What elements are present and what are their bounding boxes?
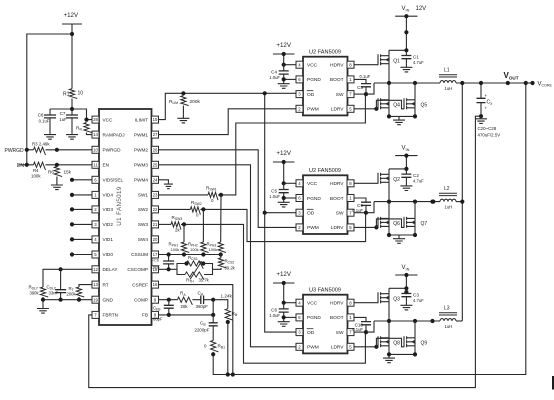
junction gate node Q8 — [374, 345, 378, 349]
capacitor CDLY — [60, 269, 62, 289]
wire GND row — [43, 300, 92, 305]
svg-text:BOOT: BOOT — [330, 315, 344, 321]
pin 1 BOOT U3 FAN5009 — [347, 314, 354, 321]
pin 6 PGND U3 FAN5009 — [296, 314, 303, 321]
junction VCC node C6 — [282, 301, 286, 305]
svg-text:360pF: 360pF — [196, 304, 209, 309]
capacitor C2 — [405, 169, 407, 174]
wire Q5 drain — [414, 83, 416, 100]
svg-text:HDRV: HDRV — [330, 181, 344, 187]
svg-text:Q7: Q7 — [421, 221, 428, 227]
junction Q7 drain rail — [413, 200, 417, 204]
junction Q9 source — [413, 352, 417, 356]
svg-text:68pF: 68pF — [153, 317, 163, 322]
junction +12V C5 — [282, 160, 286, 164]
svg-text:OD: OD — [307, 330, 315, 336]
wire PWM4 stub — [159, 180, 169, 183]
wire Q9 drain — [414, 321, 416, 338]
wire CSCOMP row — [159, 268, 178, 270]
svg-text:VID5/SEL: VID5/SEL — [103, 178, 124, 183]
svg-text:PWM3: PWM3 — [134, 163, 148, 168]
svg-text:20: 20 — [153, 237, 158, 242]
junction CFB bottom — [167, 313, 171, 317]
junction PGND C4 — [282, 77, 286, 81]
junction VCC pin / RR — [84, 118, 88, 122]
wire RR to RAMPADJ pin — [87, 133, 93, 135]
svg-text:12: 12 — [93, 267, 98, 272]
wire L2 to tie — [456, 201, 462, 203]
svg-text:100k: 100k — [209, 247, 218, 252]
wire RDLY bottom — [42, 297, 44, 300]
wire Q4 source — [388, 108, 390, 117]
junction VOUT corner — [524, 81, 528, 85]
svg-text:39.2k: 39.2k — [225, 266, 236, 271]
wire L3 to tie — [456, 320, 462, 322]
op-amp U2 FAN5009 driver box — [303, 57, 348, 116]
svg-text:15: 15 — [153, 117, 158, 122]
svg-text:C5: C5 — [271, 188, 277, 193]
wire RTH branch — [177, 269, 185, 274]
node VID2 — [70, 222, 74, 226]
capacitor C3 — [405, 288, 407, 293]
svg-text:VID3: VID3 — [103, 207, 114, 212]
svg-text:24: 24 — [153, 177, 158, 182]
svg-text:CSSUM: CSSUM — [131, 252, 148, 257]
svg-text:SW: SW — [336, 330, 344, 336]
wire RCS1 branch down — [203, 264, 212, 270]
transistor Q4 — [378, 98, 389, 109]
pin 5 LDRV U2 FAN5009 — [347, 105, 354, 112]
wire source link Q4 Q5 — [389, 115, 415, 117]
svg-text:+12V: +12V — [64, 12, 79, 19]
junction CDLY gnd — [59, 298, 63, 302]
wire VIN bar Q3 — [395, 274, 417, 276]
svg-text:VID4: VID4 — [103, 193, 114, 198]
junction RLIM — [181, 91, 185, 95]
pin 13 RT — [92, 281, 99, 288]
node VID4 — [70, 193, 74, 197]
junction SW node Q2 — [364, 211, 368, 215]
svg-text:16: 16 — [153, 282, 158, 287]
junction CFB top — [167, 298, 171, 302]
pin 8 FB — [152, 311, 159, 318]
svg-text:+12V: +12V — [276, 42, 291, 49]
junction OD bus top — [263, 91, 267, 95]
svg-text:10: 10 — [78, 91, 84, 97]
capacitor Cx output bank — [480, 83, 482, 98]
svg-text:U2 FAN5009: U2 FAN5009 — [309, 50, 341, 56]
op-amp U1 FAN5019 controller box — [99, 109, 152, 325]
wire RPH2 bottom — [202, 253, 204, 255]
wire +12V bar C6 — [273, 282, 295, 284]
wire DELAY row — [43, 269, 92, 287]
svg-text:100k: 100k — [171, 247, 180, 252]
junction RCS1 left — [184, 261, 188, 265]
junction gate node Q6 — [374, 225, 378, 229]
junction EN pull-up — [25, 163, 29, 167]
svg-text:VCC: VCC — [103, 117, 114, 122]
wire PGND C4 — [284, 78, 296, 80]
svg-text:PWRGD: PWRGD — [5, 148, 25, 154]
svg-text:L2: L2 — [444, 186, 450, 192]
wire FB row — [159, 314, 214, 316]
wire Q2 source — [388, 182, 390, 201]
wire RA to CA — [192, 299, 200, 301]
wire VCC C5 — [284, 182, 296, 184]
svg-text:1uH: 1uH — [445, 324, 453, 329]
svg-text:LDRV: LDRV — [331, 225, 345, 231]
svg-text:12V: 12V — [416, 6, 427, 12]
op-amp U2 FAN5009 driver box — [303, 175, 348, 234]
junction RB1 bottom — [211, 352, 215, 356]
svg-text:Q8: Q8 — [393, 341, 400, 347]
junction Cx ground — [479, 114, 483, 118]
resistor RT — [76, 287, 84, 297]
junction RPH1 tap — [182, 222, 186, 226]
thermistor arrow — [190, 262, 202, 280]
svg-text:CSREF: CSREF — [132, 282, 148, 287]
svg-text:0.1uF: 0.1uF — [360, 74, 371, 79]
junction below drain Q3 — [404, 290, 408, 294]
svg-text:PGND: PGND — [307, 77, 321, 83]
wire comp node down to FB — [212, 300, 214, 315]
wire VCC C6 — [284, 302, 296, 304]
wire LDRV to gates Q8 Q9 — [354, 346, 378, 348]
svg-text:2200pF: 2200pF — [195, 328, 210, 333]
wire HDRV to Q2 gate — [354, 182, 378, 184]
wire COMP row — [159, 299, 178, 301]
wire VIN bar Q2 — [395, 155, 417, 157]
wire RLIM to ground — [182, 106, 184, 115]
svg-text:ILIMIT: ILIMIT — [135, 117, 148, 122]
wire SW rail Q3 — [374, 320, 440, 322]
wire Q7 drain — [414, 202, 416, 219]
junction SW node Q1 — [364, 92, 368, 96]
junction tie top — [460, 81, 464, 85]
svg-text:FB: FB — [142, 313, 148, 318]
junction rail tie Q2 — [430, 200, 434, 204]
pin 24 PWM4 — [152, 176, 159, 183]
svg-text:C3: C3 — [413, 292, 419, 297]
junction VOUT sense — [506, 81, 510, 85]
wire Q6 drain — [388, 202, 390, 219]
svg-text:U2 FAN5009: U2 FAN5009 — [309, 168, 341, 174]
junction FB node — [211, 313, 215, 317]
svg-text:10nF: 10nF — [151, 264, 161, 269]
svg-text:1uH: 1uH — [445, 204, 453, 209]
wire EN row — [19, 164, 34, 166]
wire source link Q6 Q7 — [389, 234, 415, 236]
wire Q1 source — [388, 64, 390, 83]
svg-text:Q6: Q6 — [393, 221, 400, 227]
wire CSREF to output sense — [159, 285, 233, 375]
svg-text:+12V: +12V — [276, 271, 291, 278]
pin 19 GND — [92, 296, 99, 303]
junction left of L2 — [431, 200, 435, 204]
capacitor C6 — [283, 303, 285, 309]
junction Q7 source — [413, 233, 417, 237]
pin 11 EN — [92, 161, 99, 168]
svg-text:200k: 200k — [67, 292, 77, 297]
junction VIN bar Q3 — [404, 273, 408, 277]
wire SW1 row — [159, 194, 209, 196]
svg-text:4.7uF: 4.7uF — [413, 60, 424, 65]
inductor L3 — [440, 319, 456, 321]
artifact mark bottom right — [552, 376, 554, 390]
svg-text:15k: 15k — [64, 170, 72, 175]
node VID1 — [70, 237, 74, 241]
wire VID1 stub — [72, 238, 92, 240]
wire VIN bar Q1 — [395, 15, 417, 17]
svg-text:C6: C6 — [271, 308, 277, 313]
resistor RB1 — [211, 340, 219, 351]
svg-text:PWM: PWM — [307, 345, 319, 351]
pin 2 PWM U3 FAN5009 — [296, 343, 303, 350]
junction RPH3 bottom — [219, 252, 223, 256]
wire LDRV to gates Q4 Q5 — [354, 108, 378, 110]
capacitor C9 — [361, 202, 371, 205]
wire Q5 source — [414, 108, 416, 117]
resistor RSW2 — [190, 207, 200, 215]
wire OD to driver2 — [265, 212, 297, 214]
wire VOUT rail — [456, 82, 526, 84]
svg-text:SW2: SW2 — [138, 207, 149, 212]
junction VIN drain Q1 — [404, 48, 408, 52]
wire R4 to pin EN — [46, 164, 93, 166]
op-amp U3 FAN5009 driver box — [303, 295, 348, 354]
svg-text:Q4: Q4 — [393, 103, 400, 109]
junction VCC node C4 — [282, 63, 286, 67]
wire RPH3 bottom — [220, 253, 222, 255]
junction PGND C5 — [282, 196, 286, 200]
resistor RCS1 — [187, 261, 204, 269]
capacitor CCS — [168, 255, 170, 262]
wire Q8 drain — [388, 321, 390, 338]
junction SW node Q3 — [364, 330, 368, 334]
wire OD bus vertical — [265, 93, 297, 332]
svg-text:SW3: SW3 — [138, 222, 149, 227]
wire R3 to pin PWRGD — [46, 149, 93, 151]
ground power Q4 — [393, 117, 405, 125]
capacitor C8 — [361, 84, 371, 87]
wire HDRV to Q1 gate — [354, 64, 378, 66]
resistor RA — [177, 297, 192, 305]
svg-text:R4: R4 — [33, 168, 39, 173]
wire RT bottom to GND row — [78, 297, 80, 300]
junction +12V C4 — [282, 52, 286, 56]
svg-text:LDRV: LDRV — [331, 107, 345, 113]
junction RPH1 bottom — [182, 252, 186, 256]
transistor Q2 — [378, 173, 389, 184]
transistor Q9 — [404, 336, 415, 347]
junction tie L2 — [460, 200, 464, 204]
pin 1 BOOT U2 FAN5009 — [347, 195, 354, 202]
svg-text:Q1: Q1 — [393, 58, 400, 64]
wire RCS2 top — [220, 255, 222, 258]
junction Q6 source — [387, 233, 391, 237]
pin 28 VCC — [92, 116, 99, 123]
pin 6 VID5/SEL — [92, 176, 99, 183]
pin 8 HDRV U3 FAN5009 — [347, 299, 354, 306]
junction RPH2 tap — [201, 207, 205, 211]
wire +12V bar C4 — [273, 53, 295, 55]
wire gate link Q9 — [376, 338, 404, 347]
svg-text:R1: R1 — [63, 91, 70, 97]
svg-text:GND: GND — [103, 297, 114, 302]
wire ILIMIT to OD bus — [159, 93, 297, 119]
wire Q2 drain — [388, 169, 390, 174]
wire Q3 source — [388, 302, 390, 321]
pin 8 HDRV U2 FAN5009 — [347, 61, 354, 68]
wire SW pin Q1 — [354, 93, 366, 95]
junction PWRGD node — [55, 148, 59, 152]
wire gate link Q7 — [376, 219, 404, 228]
wire gate link Q5 — [376, 100, 404, 109]
wire VID4 stub — [72, 194, 92, 196]
wire SW3 sense to phase3 — [181, 224, 365, 363]
wire VID0 stub — [72, 254, 92, 256]
svg-text:VID1: VID1 — [103, 237, 114, 242]
svg-text:PGND: PGND — [307, 196, 321, 202]
wire SW3 row — [159, 223, 172, 225]
wire CSSUM row — [159, 254, 221, 256]
svg-text:BOOT: BOOT — [330, 77, 344, 83]
node VID3 — [70, 207, 74, 211]
wire PWM2 net — [159, 150, 297, 228]
wire SW jog to rail Q1 — [366, 83, 374, 94]
wire +12V to PWRGD/EN pull-up rail — [27, 34, 72, 165]
svg-text:26: 26 — [153, 147, 158, 152]
svg-text:10: 10 — [93, 147, 98, 152]
pin 1 VID4 — [92, 191, 99, 198]
svg-text:L3: L3 — [444, 306, 450, 312]
wire RPH1 top — [183, 224, 185, 242]
pin 5 LDRV U2 FAN5009 — [347, 224, 354, 231]
junction comp node — [211, 298, 215, 302]
pin 20 SW4 — [152, 236, 159, 243]
wire RT row — [79, 285, 92, 287]
pin 15 ILIMIT — [152, 116, 159, 123]
resistor RR rampadj — [84, 123, 92, 133]
junction Q8 source — [387, 352, 391, 356]
wire PWRGD row — [27, 149, 34, 151]
pin 16 CSREF — [152, 281, 159, 288]
capacitor CA — [201, 295, 204, 304]
svg-text:C1: C1 — [413, 54, 419, 59]
junction VIN bar Q2 — [404, 154, 408, 158]
resistor RSW3 — [171, 222, 181, 230]
svg-text:C20~C28: C20~C28 — [478, 126, 497, 131]
svg-text:R3 2.49k: R3 2.49k — [32, 141, 50, 146]
junction Q5 drain rail — [413, 81, 417, 85]
wire Q6 source — [388, 226, 390, 235]
svg-text:HDRV: HDRV — [330, 63, 344, 69]
wire BOOT to C8 — [354, 79, 366, 83]
svg-text:SW: SW — [336, 211, 344, 217]
svg-text:PWM: PWM — [307, 225, 319, 231]
svg-text:+12V: +12V — [276, 150, 291, 157]
wire Q9 source — [414, 346, 416, 355]
svg-text:FBRTN: FBRTN — [103, 313, 119, 318]
junction gate node Q4 — [374, 107, 378, 111]
capacitor C7 — [71, 109, 73, 115]
pin 12 DELAY — [92, 266, 99, 273]
svg-text:19: 19 — [93, 297, 98, 302]
resistor RPH3 — [218, 242, 226, 253]
junction CCS top — [167, 252, 171, 256]
wire PWM3 net — [159, 165, 297, 347]
ground PGND C4 — [278, 81, 290, 88]
junction RT gnd — [77, 298, 81, 302]
svg-text:C6: C6 — [38, 113, 44, 118]
svg-text:Q2: Q2 — [393, 177, 400, 183]
svg-text:1.24k: 1.24k — [221, 294, 233, 299]
svg-text:U3 FAN5009: U3 FAN5009 — [309, 288, 341, 294]
svg-text:200k: 200k — [190, 99, 201, 105]
node VID0 — [70, 252, 74, 256]
ground PGND C5 — [278, 200, 290, 207]
junction EN divider — [55, 163, 59, 167]
svg-text:VCC: VCC — [307, 63, 318, 69]
transistor Q8 — [378, 336, 389, 347]
inductor L1 — [440, 81, 456, 83]
junction RPH3 tap — [219, 193, 223, 197]
junction Q6 drain rail — [387, 200, 391, 204]
svg-text:C2: C2 — [413, 173, 419, 178]
junction rail tie Q3 — [430, 319, 434, 323]
pin 2 PWM U2 FAN5009 — [296, 224, 303, 231]
pin 7 SW U2 FAN5009 — [347, 91, 354, 98]
svg-text:EN: EN — [17, 163, 24, 169]
svg-text:PGND: PGND — [307, 315, 321, 321]
ground PWM4 — [164, 183, 173, 189]
resistor RTH thermistor — [185, 272, 204, 280]
wire SW2 sense to phase2 — [200, 209, 365, 241]
pin 4 VCC U2 FAN5009 — [296, 180, 303, 187]
pin 25 PWM3 — [152, 161, 159, 168]
ground Cx — [475, 116, 487, 123]
pin 1 BOOT U2 FAN5009 — [347, 76, 354, 83]
svg-text:33nF: 33nF — [49, 291, 59, 296]
pin 9 COMP — [152, 296, 159, 303]
resistor R1 — [69, 89, 77, 99]
junction VIN drain Q3 — [404, 286, 408, 290]
junction OD driver2 — [263, 211, 267, 215]
junction RB bottom — [226, 320, 230, 324]
svg-text:11: 11 — [93, 162, 98, 167]
capacitor CB — [212, 315, 214, 323]
pin 5 LDRV U3 FAN5009 — [347, 343, 354, 350]
svg-text:22: 22 — [153, 207, 158, 212]
svg-text:L1: L1 — [444, 68, 450, 74]
svg-text:0.1uF: 0.1uF — [39, 119, 50, 124]
svg-text:COMP: COMP — [134, 297, 148, 302]
svg-text:EN: EN — [103, 163, 110, 168]
transistor Q5 — [404, 98, 415, 109]
wire HDRV to Q3 gate — [354, 302, 378, 304]
svg-text:RT: RT — [103, 282, 109, 287]
svg-text:CSCOMP: CSCOMP — [127, 267, 148, 272]
svg-text:R6: R6 — [48, 170, 54, 175]
svg-text:VCC: VCC — [307, 301, 318, 307]
svg-text:1uF: 1uF — [59, 117, 67, 122]
svg-text:100k: 100k — [31, 174, 41, 179]
wire SW1 sense to phase1 — [218, 94, 365, 195]
pin 18 CSCOMP — [152, 266, 159, 273]
pin 4 VID1 — [92, 236, 99, 243]
svg-text:4.7uF: 4.7uF — [413, 298, 424, 303]
svg-text:28k: 28k — [181, 304, 189, 309]
